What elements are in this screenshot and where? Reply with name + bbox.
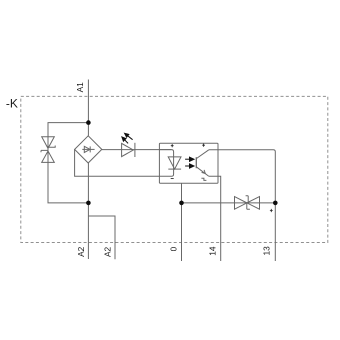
svg-text:0: 0 <box>168 246 178 251</box>
svg-text:A2: A2 <box>102 247 112 258</box>
svg-text:13: 13 <box>262 246 272 256</box>
svg-text:-K: -K <box>6 97 18 111</box>
svg-text:A2: A2 <box>76 246 86 257</box>
svg-text:A1: A1 <box>75 82 85 93</box>
svg-text:14: 14 <box>207 246 217 256</box>
